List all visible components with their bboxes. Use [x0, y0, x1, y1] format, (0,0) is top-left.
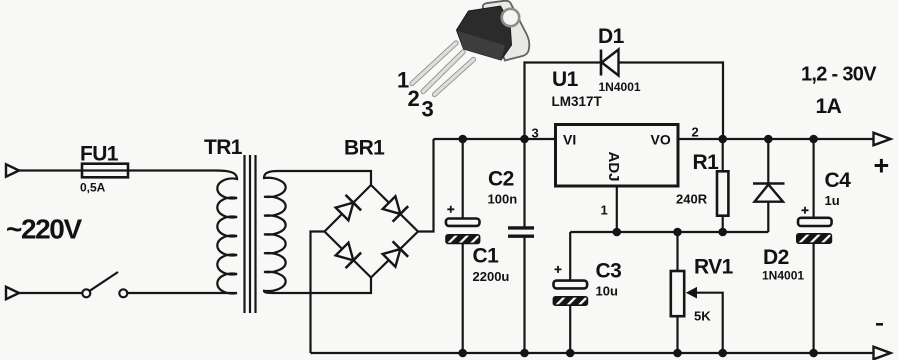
wire ADJ net — [570, 231, 768, 233]
capacitor C4 (electrolytic 1u) — [797, 169, 851, 243]
svg-text:10u: 10u — [596, 284, 618, 299]
wire switch to transformer — [128, 292, 216, 294]
node C2 bottom — [520, 349, 529, 358]
svg-text:100n: 100n — [488, 192, 518, 207]
node VO/D1/R1 — [718, 135, 727, 144]
input terminal arrow (AC line, top) — [6, 164, 19, 176]
svg-text:2: 2 — [692, 125, 699, 140]
svg-text:C3: C3 — [596, 260, 622, 283]
svg-text:240R: 240R — [676, 192, 708, 207]
transformer TR1 secondary winding — [264, 171, 286, 293]
wire C2 top stub — [523, 139, 525, 227]
svg-text:U1: U1 — [552, 68, 579, 91]
diode BR1 bottom-right — [381, 241, 408, 268]
wire C4 bottom stub — [812, 244, 814, 353]
svg-text:5K: 5K — [694, 309, 711, 324]
legs — [412, 43, 474, 95]
transformer TR1 primary winding — [215, 171, 237, 294]
svg-text:+: + — [874, 151, 890, 181]
potentiometer RV1 5K — [671, 232, 734, 353]
wire C1 bottom stub — [462, 243, 464, 353]
svg-text:3: 3 — [532, 126, 539, 141]
regulator U1 LM317T — [532, 68, 699, 218]
input terminal arrow (AC neutral, bottom) — [6, 287, 19, 299]
fuse FU1 — [82, 164, 128, 178]
svg-text:C2: C2 — [488, 168, 514, 191]
svg-text:1: 1 — [601, 203, 608, 218]
output terminal arrow (negative, bottom right) — [874, 347, 891, 360]
svg-text:1,2 - 30V: 1,2 - 30V — [801, 64, 877, 86]
diode D1 (1N4001) — [598, 25, 641, 94]
wire secondary top to bridge AC node — [278, 171, 371, 185]
mounting hole — [502, 9, 519, 26]
wire bridge minus output to ground rail — [311, 232, 325, 354]
svg-text:VI: VI — [563, 132, 576, 148]
wire C3 top stub — [569, 232, 571, 281]
svg-text:~220V: ~220V — [6, 214, 82, 245]
capacitor C1 (electrolytic 2200u) — [446, 206, 510, 284]
node C1 bottom — [458, 349, 467, 358]
wire output rail VO to terminal — [678, 138, 874, 140]
bridge BR1 diamond wiring — [325, 185, 419, 278]
diode BR1 top-right — [381, 195, 408, 222]
svg-text:FU1: FU1 — [80, 143, 119, 166]
svg-text:BR1: BR1 — [344, 137, 385, 160]
svg-text:3: 3 — [422, 97, 434, 122]
svg-text:D2: D2 — [763, 246, 789, 269]
output terminal arrow (positive) — [874, 133, 891, 146]
wire bridge plus output up to main rail — [418, 139, 434, 232]
diode D2 (1N4001) — [753, 139, 804, 283]
node D2 top — [764, 135, 773, 144]
LM317T package photo (TO-220) — [397, 1, 529, 122]
transformer TR1 core — [245, 155, 256, 313]
diode BR1 bottom-left — [334, 241, 361, 268]
wire ADJ pin — [616, 186, 618, 232]
node wiper bottom — [718, 349, 727, 358]
svg-text:R1: R1 — [693, 151, 720, 174]
node RV1 bottom — [673, 349, 682, 358]
wire D1 bypass branch — [525, 63, 724, 140]
wire top input to transformer — [19, 169, 215, 171]
wire bottom input to switch — [19, 292, 82, 294]
diode BR1 top-left — [334, 195, 361, 222]
metal tab — [483, 1, 529, 61]
svg-text:D1: D1 — [598, 25, 625, 48]
svg-text:TR1: TR1 — [204, 136, 243, 159]
svg-text:RV1: RV1 — [694, 256, 734, 279]
node R1 bottom — [718, 228, 727, 237]
svg-text:C4: C4 — [825, 169, 852, 192]
svg-text:1N4001: 1N4001 — [599, 80, 641, 94]
node C3 bottom — [566, 349, 575, 358]
resistor R1 240R — [676, 139, 728, 232]
node C4 top — [809, 135, 818, 144]
wire secondary bottom to bridge AC node — [276, 278, 371, 294]
svg-text:ADJ: ADJ — [605, 152, 622, 182]
svg-text:LM317T: LM317T — [552, 94, 603, 109]
node RV1 top — [673, 228, 682, 237]
wire C3 bottom stub — [569, 305, 571, 353]
wire C4 top stub — [812, 139, 814, 218]
wire C1 top stub — [462, 139, 464, 219]
svg-text:VO: VO — [651, 132, 671, 148]
wire main positive rail to U1 VI — [434, 138, 556, 140]
svg-text:2: 2 — [408, 86, 420, 111]
plastic body — [457, 6, 512, 60]
wire C2 bottom stub — [523, 237, 525, 353]
capacitor C2 (100n) — [488, 168, 535, 237]
wiper wire — [696, 293, 723, 353]
node C4 bottom — [809, 349, 818, 358]
svg-text:0,5A: 0,5A — [80, 181, 106, 195]
svg-text:1N4001: 1N4001 — [762, 269, 804, 283]
switch SW — [82, 289, 90, 297]
wire ground rail (bottom) — [311, 352, 874, 354]
svg-text:2200u: 2200u — [473, 269, 510, 284]
node C2/D1 top rail — [520, 135, 529, 144]
svg-text:C1: C1 — [473, 245, 500, 268]
node ADJ pin — [613, 228, 622, 237]
node C1 top — [458, 135, 467, 144]
capacitor C3 (electrolytic 10u) — [553, 260, 621, 306]
svg-text:1u: 1u — [825, 193, 840, 208]
svg-text:1A: 1A — [816, 95, 842, 118]
label minus — [876, 323, 883, 326]
